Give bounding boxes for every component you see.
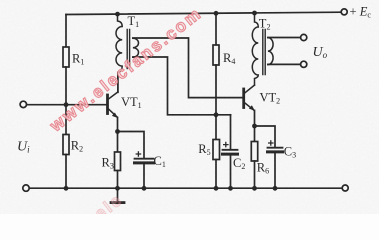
wire top supply rail <box>66 12 341 14</box>
wire T1 secondary top to VT2 base <box>133 38 243 98</box>
capacitor C2 plates <box>223 149 238 151</box>
wire T2 secondary top to output <box>268 37 301 39</box>
capacitor C1 plates <box>135 158 154 160</box>
resistor R3 <box>115 152 121 171</box>
junction VT1 emitter node <box>115 129 120 134</box>
wire VT1 emitter down <box>117 118 119 132</box>
terminal input top <box>20 101 26 107</box>
wire emitter node to R6 <box>254 126 256 142</box>
resistor R1 <box>63 47 69 67</box>
junction bottom rail C3 <box>273 186 278 191</box>
resistor R2 <box>63 135 69 155</box>
wire C1 to bottom rail <box>143 164 145 188</box>
junction bias node <box>214 112 219 117</box>
wire R6 to bottom rail <box>254 161 256 188</box>
terminal output top <box>301 34 307 40</box>
arrowhead VT2 emitter <box>249 105 255 111</box>
scan noise overlay <box>0 0 1 1</box>
wire input to VT1 base <box>27 104 107 106</box>
resistor R6 <box>251 142 257 162</box>
resistor R4 <box>213 45 219 65</box>
wire VT2 emitter down <box>254 110 256 126</box>
wire left column drop to R1 <box>65 15 67 48</box>
arrowhead VT1 emitter <box>112 113 118 119</box>
wire R5 to bottom rail <box>215 160 217 189</box>
wire C2 to bottom rail <box>230 156 232 189</box>
transformer T2 secondary winding <box>268 38 273 65</box>
junction bottom rail R6 <box>252 186 257 191</box>
wire emitter node to C1 <box>118 132 145 158</box>
capacitor C3 plates <box>268 147 283 149</box>
junction bottom rail C1 <box>142 186 147 191</box>
wire T1 secondary bottom to bias node <box>133 57 231 115</box>
wire R1 to base node <box>65 67 67 105</box>
junction bottom rail R2 <box>64 186 69 191</box>
transistor VT2 base bar <box>242 89 245 108</box>
wire emitter node to R3 <box>117 132 119 153</box>
wire C3 to bottom rail <box>274 153 276 188</box>
junction base node <box>64 102 69 107</box>
junction bottom rail C2 <box>228 186 233 191</box>
wire T2 secondary bottom to output <box>268 63 301 65</box>
plus sign C2 <box>223 142 229 148</box>
transistor VT1 collector <box>109 73 118 99</box>
wire C2 drop <box>230 115 232 149</box>
junction top rail T1 <box>115 12 120 17</box>
junction top rail T2 <box>252 11 257 16</box>
wire R2 to bottom rail <box>65 155 67 189</box>
transformer T1 secondary winding <box>133 38 139 57</box>
terminal +Ec <box>341 9 347 15</box>
junction VT2 emitter node <box>252 124 257 129</box>
wire emitter node to C3 <box>255 126 276 146</box>
plus sign C3 <box>268 140 274 146</box>
junction bottom rail R5 <box>214 186 219 191</box>
junction bottom rail R3 <box>115 186 120 191</box>
wire bias node to R5 <box>215 115 217 140</box>
transformer T1 core <box>127 30 129 69</box>
wire R3 to bottom rail <box>117 171 119 189</box>
transistor VT1 base bar <box>106 95 109 114</box>
transformer T2 core <box>263 30 265 75</box>
terminal bottom right <box>342 185 348 191</box>
transistor VT1 emitter <box>109 109 118 117</box>
junction top rail R4 <box>214 11 219 16</box>
terminal output bottom <box>301 61 307 67</box>
wire R4 from rail <box>215 13 217 45</box>
transistor VT2 collector <box>245 85 255 93</box>
wire bottom rail <box>29 187 342 189</box>
transistor VT2 emitter <box>245 103 254 110</box>
ground <box>117 188 119 202</box>
wire base node to R2 <box>65 105 67 135</box>
wire R4 to bias node <box>215 65 217 115</box>
plus sign C1 <box>136 151 142 157</box>
transformer T1 primary winding <box>116 14 122 92</box>
terminal input bottom <box>23 185 29 191</box>
transformer T2 primary winding <box>252 13 258 85</box>
resistor R5 <box>213 140 220 160</box>
